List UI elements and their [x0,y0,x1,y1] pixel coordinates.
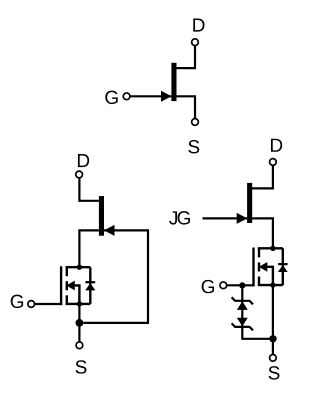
terminal D (right circuit) [270,159,277,166]
node G label (left circuit) [11,295,23,308]
mosfet gate lead (right MOSFET) [227,284,255,286]
mosfet channel segment 1 (left MOSFET) [66,267,68,276]
mosfet gate plate (left MOSFET) [60,266,62,305]
node D label (top JFET) [193,19,204,32]
body diode branch wire (right MOSFET) [282,248,284,285]
terminal S (right circuit) [270,355,277,362]
junction dot drain (right MOSFET) [270,246,275,251]
body diode triangle (right MOSFET) [278,265,288,272]
body arrow (left MOSFET) [66,281,75,291]
junction dot source node (left circuit) [76,319,84,327]
node D label (left circuit) [78,154,89,167]
wire gate JG (right JFET) [203,217,248,219]
mosfet channel segment 3 (left MOSFET) [66,295,68,304]
junction dot gate lead (right MOSFET) [239,282,245,288]
wire gate to feedback loop (left JFET) [83,230,148,323]
gate arrow (right JFET) [237,213,248,224]
body wire step (left MOSFET) [74,285,79,304]
mosfet channel segment 2 (right MOSFET) [258,262,260,271]
jfet channel bar (left JFET) [99,196,104,236]
wire drain (right JFET) [252,165,273,188]
junction dot source (left MOSFET) [77,301,82,306]
terminal G (right circuit) [220,282,227,289]
zener branch wire (right circuit) [242,285,273,339]
junction dot source node (right circuit) [269,335,276,342]
mosfet gate lead (left MOSFET) [35,303,63,305]
zener diode Z2 triangle [237,318,248,326]
wire source to S terminal (right circuit) [272,285,274,354]
terminal D (top JFET) [192,39,199,46]
wire source to S terminal (left circuit) [78,304,80,342]
mosfet top rail drain (left MOSFET) [66,266,91,268]
body diode branch wire (left MOSFET) [89,267,91,304]
mosfet bottom rail source (left MOSFET) [66,303,91,305]
zener diode Z1 triangle [237,301,248,310]
mosfet top rail drain (right MOSFET) [258,247,283,249]
node G label (top JFET) [105,91,117,104]
terminal G (top JFET) [123,93,130,100]
mosfet gate plate (right MOSFET) [252,248,254,287]
node S label (right circuit) [269,366,280,379]
terminal D (left circuit) [76,171,83,178]
node S label (left circuit) [76,360,87,373]
body diode cathode bar (left MOSFET) [85,281,95,283]
mosfet channel segment 2 (left MOSFET) [66,281,68,290]
node S label (top JFET) [188,140,199,153]
terminal S (top JFET) [192,119,199,126]
wire gate (top JFET) [130,95,172,97]
terminal G (left circuit) [28,301,35,308]
jfet channel bar (right JFET) [247,183,252,223]
junction dot drain (left MOSFET) [77,265,82,270]
node G label (right circuit) [202,280,214,293]
zener diode Z2 cathode bar [232,323,253,330]
gate arrow (left JFET) [104,225,115,236]
mosfet channel segment 3 (right MOSFET) [258,277,260,286]
node JG label (right circuit) [169,211,177,224]
wire source (right JFET) [252,218,273,248]
body diode triangle (left MOSFET) [85,283,95,290]
wire drain (top JFET) [176,46,196,69]
zener diode Z1 cathode bar [232,297,253,304]
wire source (top JFET) [176,96,195,118]
mosfet bottom rail source (right MOSFET) [258,284,283,286]
terminal S (left circuit) [76,342,83,349]
mosfet channel segment 1 (right MOSFET) [258,248,260,257]
node D label (right circuit) [271,139,282,152]
body diode cathode bar (right MOSFET) [278,263,287,265]
wire source (left JFET) [79,230,99,267]
wire drain (left JFET) [79,178,99,201]
junction dot source (right MOSFET) [270,282,275,287]
body arrow (right MOSFET) [259,262,268,272]
body wire step (right MOSFET) [266,267,273,285]
gate arrow (top JFET) [161,91,172,102]
jfet channel bar (top JFET) [171,63,176,101]
